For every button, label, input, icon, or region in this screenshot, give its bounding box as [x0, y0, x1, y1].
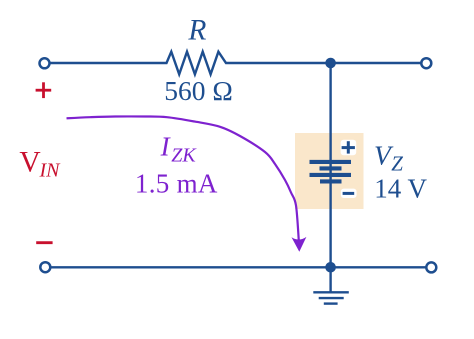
svg-text:V: V	[19, 146, 40, 178]
svg-text:Z: Z	[391, 151, 403, 175]
svg-text:1.5 mA: 1.5 mA	[135, 168, 218, 198]
svg-text:IN: IN	[39, 159, 62, 181]
svg-text:R: R	[187, 15, 206, 47]
svg-text:560 Ω: 560 Ω	[164, 75, 233, 106]
svg-text:ZK: ZK	[171, 145, 197, 167]
svg-text:14 V: 14 V	[374, 174, 427, 204]
